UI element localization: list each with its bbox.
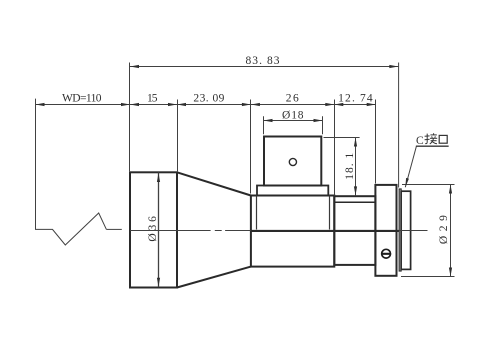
svg-text:WD=110: WD=110 <box>62 92 102 104</box>
cone taper bottom <box>177 267 251 288</box>
front barrel (Ø36 section) <box>130 172 177 287</box>
strip (mount washer) <box>399 189 401 271</box>
extension line x=130 (barrel front face) <box>129 63 131 172</box>
box (Ø18 square port) <box>264 137 321 186</box>
glyph 接 <box>425 133 438 144</box>
underline of label <box>416 145 449 147</box>
svg-text:15: 15 <box>147 92 158 104</box>
arrow Ø18 right <box>314 119 323 122</box>
dimension line Ø18 <box>264 120 323 122</box>
C-mount ring <box>401 191 411 269</box>
dimension 18.1 top extension <box>324 137 360 139</box>
arrow 18.1 bottom <box>354 186 357 195</box>
dimension Ø18 extension left <box>263 116 265 134</box>
extension line x=375.7 (rear flange face) <box>375 100 377 184</box>
dimension line 83.83 <box>130 66 398 68</box>
svg-text:83. 83: 83. 83 <box>246 55 280 67</box>
centerline thick section through barrels <box>251 230 399 232</box>
arrow Ø36 top <box>157 173 160 182</box>
arrow 83.83 left <box>130 65 139 68</box>
rear flange <box>375 185 396 276</box>
svg-text:12. 74: 12. 74 <box>338 92 373 104</box>
glyph 口 <box>439 135 447 143</box>
extension line x=251.5 (cone end) <box>250 100 252 194</box>
arrow 18.1 top <box>354 138 357 147</box>
arrow at x=375.7 <box>367 103 376 106</box>
svg-text:C: C <box>416 135 424 147</box>
extension line x=177 (barrel rear face) <box>177 100 179 172</box>
break line (object plane zigzag) <box>36 99 107 245</box>
box circle <box>289 158 296 165</box>
arrow pair at x=251.5 <box>242 103 260 106</box>
svg-text:Ø18: Ø18 <box>282 109 304 121</box>
box flange <box>257 186 328 196</box>
dimension line row (WD=110 / 15 / 23.09 / 26 / 12.74) <box>36 104 376 106</box>
dimension Ø18 extension right <box>322 116 324 134</box>
svg-text:Ø36: Ø36 <box>147 216 159 242</box>
arrow Ø29 top <box>449 185 452 194</box>
dimension Ø29 top extension <box>402 184 455 186</box>
extension line x=334 (middle barrel end) <box>334 100 336 196</box>
svg-text:23. 09: 23. 09 <box>193 92 224 104</box>
extension line x=398.3 (ring face, 83.83 right) <box>398 63 400 188</box>
middle barrel <box>251 196 334 267</box>
arrow Ø36 bottom <box>157 278 160 287</box>
arrow Ø29 bottom <box>449 268 452 277</box>
arrow pair at x=130 <box>121 103 139 106</box>
dimension line Ø29 <box>450 185 452 277</box>
label C接口 (C-mount port) : C + drawn CJK glyphs <box>416 133 449 147</box>
dimension line 18.1 <box>355 138 357 196</box>
arrow pair at x=177 <box>168 103 186 106</box>
rear barrel <box>334 196 375 265</box>
svg-text:18. 1: 18. 1 <box>344 153 356 180</box>
centerline <box>106 229 427 230</box>
svg-text:Ø29: Ø29 <box>438 215 450 244</box>
step lines right of flange <box>257 196 330 230</box>
dimension Ø29 bottom extension <box>401 276 455 278</box>
leader line C-mount <box>405 146 448 187</box>
arrow Ø18 left <box>264 119 273 122</box>
arrow pair at x=334 <box>325 103 343 106</box>
screw <box>381 249 391 258</box>
arrow 83.83 right <box>389 65 398 68</box>
cone taper top <box>177 172 251 195</box>
arrow WD left <box>36 103 45 106</box>
leader arrow <box>405 178 409 187</box>
dimension line Ø36 (inside front barrel) <box>158 172 160 287</box>
svg-text:26: 26 <box>286 92 299 104</box>
rear barrel inner step line <box>334 201 375 203</box>
